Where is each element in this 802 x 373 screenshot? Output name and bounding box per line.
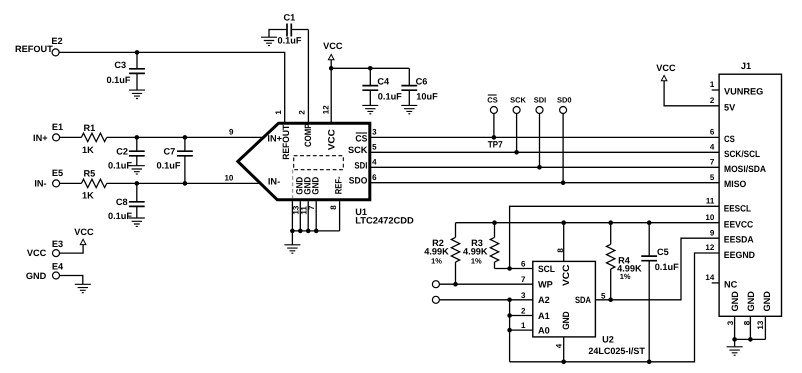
svg-text:10uF: 10uF [416,92,438,102]
wire VCC to J1 pin 2 [664,81,719,106]
svg-text:GND: GND [26,271,47,281]
svg-text:E5: E5 [52,168,63,178]
terminal E2 [52,49,59,56]
resistor R3 [463,223,499,269]
junction [306,229,311,234]
ADC U1 LTC2472CDD body [238,123,370,200]
svg-text:6: 6 [521,260,526,269]
wire U2 pin 4 GND [563,337,565,362]
junction [492,135,497,140]
svg-text:U2: U2 [602,334,614,344]
junction [561,360,566,365]
svg-text:C2: C2 [116,147,128,157]
pin 7 MOSI/SDA [710,158,766,174]
svg-text:0.1uF: 0.1uF [278,35,302,45]
svg-text:24LC025-I/ST: 24LC025-I/ST [588,346,645,356]
svg-text:5: 5 [710,173,715,182]
svg-text:5: 5 [372,143,377,152]
svg-text:12: 12 [322,105,331,114]
svg-text:8: 8 [556,248,565,253]
svg-text:C7: C7 [164,147,176,157]
wire U2 pin 8 VCC [563,223,565,262]
resistor R1 [81,123,106,155]
wire C1 to U1 pin 2 [307,30,309,125]
test point SDI [534,96,547,168]
svg-text:1: 1 [274,110,283,115]
pin 6 CS [710,128,735,145]
svg-text:NC: NC [724,280,738,290]
svg-text:EEVCC: EEVCC [724,220,754,230]
svg-text:SDA: SDA [575,295,591,305]
resistor R5 [81,168,106,200]
svg-text:3: 3 [521,291,526,300]
wire EESDA [595,238,719,300]
ground [401,105,417,113]
svg-text:1K: 1K [82,191,94,201]
wire SDI bus [369,166,719,168]
svg-text:2: 2 [298,110,307,115]
svg-text:14: 14 [705,273,714,282]
wire SCK bus [369,151,719,153]
svg-text:1%: 1% [620,272,631,281]
U1 exposed pad stem (dashed) [292,170,294,198]
capacitor C2 [108,137,145,170]
junction [608,220,613,225]
wire E3 to VCC [60,245,84,254]
svg-text:VCC: VCC [656,63,676,73]
svg-text:COMP: COMP [303,124,313,148]
pin 9 EESDA [710,228,754,244]
capacitor C8 [108,183,145,221]
svg-text:1K: 1K [82,145,94,155]
terminal E1 [53,134,60,141]
connector J1 body [719,74,781,316]
power VCC [323,41,343,60]
wire EEVCC [456,222,720,224]
svg-text:4.99K: 4.99K [463,247,488,257]
junction [537,165,542,170]
svg-text:4: 4 [710,143,715,152]
wire A0 [510,329,533,331]
junction [608,298,613,303]
svg-text:REF-: REF- [334,176,344,194]
terminal E3 [53,250,60,257]
svg-text:SCK/SCL: SCK/SCL [724,149,760,159]
svg-text:SDO: SDO [349,176,368,186]
svg-text:VCC: VCC [561,264,571,286]
svg-text:4.99K: 4.99K [424,247,449,257]
junction [492,220,497,225]
wire REFOUT to U1 pin 1 [59,52,285,124]
svg-text:0.1uF: 0.1uF [655,262,679,272]
svg-text:3: 3 [726,320,735,325]
wire SCL [495,268,533,270]
junction [290,229,295,234]
wire WP [439,283,533,285]
svg-text:SCL: SCL [538,264,555,274]
svg-text:0.1uF: 0.1uF [378,92,402,102]
junction [514,150,519,155]
svg-text:MISO: MISO [724,179,746,189]
junction [368,66,373,71]
junction [507,313,512,318]
svg-text:R1: R1 [84,123,96,133]
capacitor C7 [157,137,193,183]
junction [135,50,140,55]
power VCC [656,63,676,81]
svg-text:0.1uF: 0.1uF [157,160,181,170]
junction [507,328,512,333]
svg-text:10: 10 [224,174,233,183]
svg-text:0.1uF: 0.1uF [108,211,132,221]
terminal E5 [53,180,60,187]
wire CS bus [369,136,719,138]
svg-text:EEGND: EEGND [724,250,756,260]
wire IN- to U1 pin 10 [107,182,262,184]
ground [362,105,378,113]
svg-text:2: 2 [710,96,715,105]
svg-text:8: 8 [329,205,338,210]
ground [129,218,145,226]
pin 1 VUNREG [710,80,763,96]
svg-text:WP: WP [538,280,553,290]
svg-text:IN-: IN- [268,176,280,186]
svg-text:CS: CS [487,96,497,105]
junction [329,66,334,71]
ground [129,90,145,98]
svg-text:A1: A1 [538,311,550,321]
pin 2 5V [710,96,736,112]
capacitor C5 [641,223,679,362]
junction [561,180,566,185]
svg-text:J1: J1 [741,61,751,71]
U1 bottom ground wires [292,201,339,245]
svg-text:A2: A2 [538,295,550,305]
J1 bottom ground wires [735,316,766,347]
junction [507,266,512,271]
terminal E4 [53,272,60,279]
svg-text:CS: CS [724,134,735,144]
test point SD0 [557,96,572,183]
svg-text:LTC2472CDD: LTC2472CDD [355,215,414,225]
wire [60,182,82,184]
wire SDO bus [369,182,719,184]
wire A2 [439,299,533,301]
wire VCC to U1 pin 12 [330,60,332,125]
svg-text:13: 13 [756,320,765,329]
svg-text:GND: GND [730,291,740,312]
svg-text:4: 4 [554,343,563,348]
junction [183,181,188,186]
pin 4 SCK/SCL [710,143,760,159]
wire [60,136,82,138]
junction [183,135,188,140]
svg-text:CS: CS [355,134,367,144]
junction [647,220,652,225]
wire A1 [510,315,533,317]
svg-text:TP7: TP7 [488,140,503,150]
test point SCK [510,96,526,153]
svg-text:GND: GND [311,176,321,194]
svg-text:10: 10 [705,213,714,222]
svg-text:5: 5 [601,291,606,300]
svg-text:VCC: VCC [74,227,94,237]
svg-text:1: 1 [710,80,715,89]
svg-text:9: 9 [229,128,234,137]
svg-text:GND: GND [746,291,756,312]
svg-text:MOSI/SDA: MOSI/SDA [724,164,766,174]
svg-text:REFOUT: REFOUT [281,124,291,159]
capacitor C4 [362,68,402,105]
svg-text:0.1uF: 0.1uF [108,160,132,170]
svg-text:C8: C8 [116,197,128,207]
svg-text:EESDA: EESDA [724,235,754,245]
svg-text:12: 12 [705,243,714,252]
svg-text:6: 6 [710,128,715,137]
svg-text:8: 8 [742,320,751,325]
svg-text:VCC: VCC [323,41,343,51]
pin 10 EEVCC [705,213,753,230]
svg-text:VCC: VCC [27,248,47,258]
svg-text:7: 7 [710,158,715,167]
svg-text:0.1uF: 0.1uF [107,75,131,85]
junction [561,220,566,225]
pin 5 MISO [710,173,746,189]
wire A chain to ground rail [509,300,511,362]
wire E4 to ground [60,276,83,285]
svg-text:EESCL: EESCL [724,204,752,214]
U1 exposed pad (dashed) [294,156,344,170]
svg-text:VCC: VCC [326,129,336,150]
junction [298,229,303,234]
test point CS [487,95,497,137]
svg-text:GND: GND [762,291,772,312]
wire EEGND [510,253,719,362]
svg-text:C6: C6 [416,77,428,87]
svg-text:1: 1 [521,321,526,330]
svg-text:REFOUT: REFOUT [15,44,53,54]
svg-text:IN-: IN- [34,179,46,189]
svg-text:1%: 1% [431,256,442,265]
terminal [432,296,439,303]
pin 11 EESCL [706,197,752,214]
svg-text:E4: E4 [52,262,64,272]
svg-text:VUNREG: VUNREG [724,87,763,97]
ground [129,166,145,174]
pin 12 EEGND [705,243,755,260]
svg-text:IN+: IN+ [33,133,48,143]
svg-text:R5: R5 [84,168,96,178]
svg-text:1%: 1% [471,256,482,265]
svg-text:2: 2 [521,307,526,316]
ground [727,347,743,355]
svg-text:6: 6 [372,173,377,182]
svg-text:4: 4 [372,157,377,166]
ground [75,284,91,292]
power VCC [74,227,94,244]
junction [732,337,737,342]
ground [261,37,277,45]
junction [135,135,140,140]
capacitor C6 [401,68,438,105]
terminal [432,281,439,288]
wire VCC rail to C4 C6 [331,67,409,69]
svg-text:SCK: SCK [348,145,368,155]
resistor R4 [607,223,643,300]
svg-text:3: 3 [372,128,377,137]
svg-text:11: 11 [706,197,715,206]
svg-text:E1: E1 [52,122,63,132]
junction [453,282,458,287]
IC U2 24LC025 body [533,261,596,337]
svg-text:GND: GND [561,311,571,330]
svg-text:A0: A0 [538,325,550,335]
pin 14 NC [705,273,737,289]
ground [284,245,300,253]
capacitor C1 [269,13,308,46]
svg-text:C1: C1 [284,13,296,23]
wire EESCL [510,206,719,268]
junction [647,360,652,365]
svg-text:C4: C4 [377,77,390,87]
svg-text:SDI: SDI [534,96,547,105]
resistor R2 [424,223,459,285]
svg-text:7: 7 [521,275,526,284]
junction [135,181,140,186]
svg-text:SD0: SD0 [557,96,572,105]
junction [748,337,753,342]
svg-text:E2: E2 [51,36,62,46]
svg-text:IN+: IN+ [267,134,282,144]
junction [314,229,319,234]
svg-text:9: 9 [710,228,715,237]
wire IN+ to U1 pin 9 [107,136,264,138]
svg-text:C5: C5 [657,247,669,257]
svg-text:5V: 5V [724,102,736,112]
svg-text:E3: E3 [52,239,63,249]
junction [507,298,512,303]
svg-text:SDI: SDI [354,161,367,171]
svg-text:7: 7 [307,205,316,210]
svg-text:C3: C3 [114,60,126,70]
capacitor C3 [107,52,145,90]
svg-text:SCK: SCK [510,96,526,105]
